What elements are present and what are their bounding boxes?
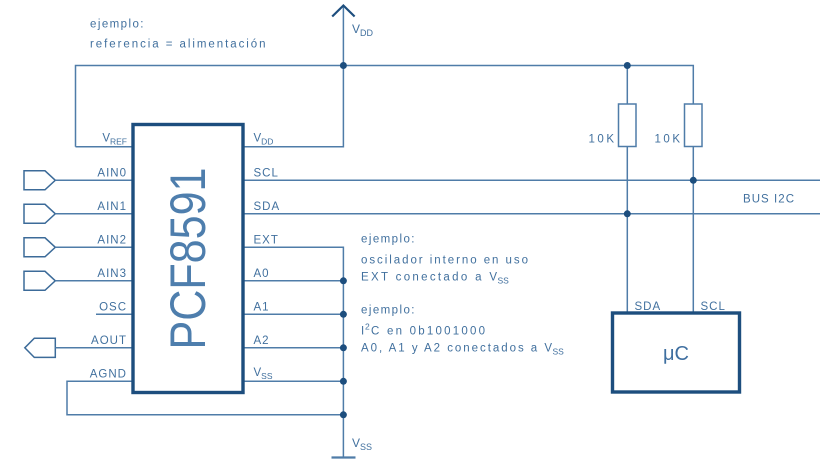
- junction dots on common column: [340, 277, 347, 284]
- wire AIN0: [55, 179, 133, 181]
- svg-text:2: 2: [365, 322, 370, 332]
- svg-text:AOUT: AOUT: [91, 335, 127, 347]
- svg-text:ejemplo:: ejemplo:: [361, 305, 415, 317]
- ground VSS bar: [332, 456, 356, 458]
- svg-text:AIN0: AIN0: [97, 168, 127, 180]
- svg-text:μC: μC: [663, 343, 689, 365]
- input arrow AIN0: [24, 171, 55, 190]
- wire: OSC stub: [96, 313, 133, 315]
- output arrow AOUT: [25, 338, 56, 357]
- svg-text:SDA: SDA: [635, 301, 662, 313]
- wire: EXT to common VSS column: [244, 247, 343, 456]
- microcontroller U2 uC body: [613, 313, 740, 392]
- svg-text:BUS I2C: BUS I2C: [743, 194, 794, 206]
- svg-text:AGND: AGND: [90, 369, 127, 381]
- wire: VREF pin stub: [76, 146, 134, 148]
- svg-text:AIN2: AIN2: [97, 235, 127, 247]
- svg-text:10K: 10K: [589, 134, 615, 146]
- wire: R1 branch down to uC SDA: [626, 66, 628, 105]
- junction R1-SDA: [624, 210, 631, 217]
- svg-text:A0, A1 y A2 conectados a V: A0, A1 y A2 conectados a V: [361, 343, 552, 355]
- wire: SCL line: [244, 179, 820, 181]
- junction R2-SCL: [690, 177, 697, 184]
- svg-text:I: I: [361, 326, 364, 338]
- svg-text:ejemplo:: ejemplo:: [361, 234, 415, 246]
- svg-text:A0: A0: [254, 268, 270, 280]
- wire: R2 branch down to uC SCL: [692, 147, 694, 314]
- svg-text:ejemplo:: ejemplo:: [90, 19, 144, 31]
- svg-text:SDA: SDA: [254, 201, 281, 213]
- svg-text:SCL: SCL: [701, 301, 726, 313]
- svg-text:10K: 10K: [655, 134, 681, 146]
- svg-text:AIN1: AIN1: [97, 201, 127, 213]
- wire: A0 stub: [244, 280, 343, 282]
- wire: A2 stub: [244, 347, 343, 349]
- svg-text:EXT conectado a V: EXT conectado a V: [361, 272, 497, 284]
- wire: top rail from VREF corner to resistor R2 corner: [76, 66, 694, 147]
- svg-text:OSC: OSC: [99, 302, 127, 314]
- resistor R1 10K: [619, 104, 637, 147]
- svg-text:oscilador interno en uso: oscilador interno en uso: [361, 255, 528, 267]
- svg-text:SS: SS: [553, 347, 565, 357]
- svg-text:AIN3: AIN3: [97, 268, 127, 280]
- svg-text:EXT: EXT: [254, 235, 279, 247]
- input arrow AIN2: [24, 238, 55, 257]
- wire AIN3: [55, 280, 133, 282]
- wire: SDA line: [244, 213, 820, 215]
- wire: AGND loop: [67, 381, 343, 415]
- svg-text:SCL: SCL: [254, 168, 279, 180]
- svg-text:SS: SS: [498, 276, 510, 286]
- wire AIN2: [55, 246, 133, 248]
- input arrow AIN3: [24, 271, 55, 290]
- wire: VSS pin stub: [244, 380, 343, 382]
- svg-text:A1: A1: [254, 302, 270, 314]
- junction dots on VDD rail: [340, 62, 347, 69]
- power symbol VDD arrowhead: [332, 6, 354, 17]
- resistor R2 10K: [685, 104, 703, 147]
- IC U1 PCF8591 body: [133, 125, 243, 393]
- svg-text:A2: A2: [254, 335, 270, 347]
- wire AOUT: [55, 347, 133, 349]
- svg-text:PCF8591: PCF8591: [160, 168, 216, 350]
- wire: VDD pin to VDD arrow stem: [244, 7, 343, 147]
- wire: A1 stub: [244, 313, 343, 315]
- input arrow AIN1: [24, 204, 55, 223]
- wire AIN1: [55, 213, 133, 215]
